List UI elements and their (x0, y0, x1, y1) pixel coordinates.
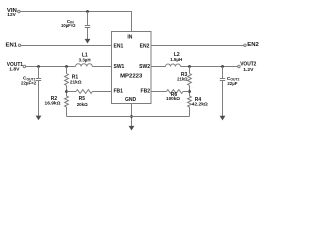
inductor L2 (166, 64, 181, 67)
wire EN2 to terminal (151, 45, 244, 47)
svg-text:1.2V: 1.2V (243, 67, 254, 73)
svg-text:100kΩ: 100kΩ (166, 96, 180, 101)
capacitor C_IN plates (85, 25, 90, 27)
wire SW2 to L2 (151, 66, 166, 68)
node C_OUT1 junction (37, 65, 40, 68)
wire R1 to node A (66, 86, 68, 97)
ground C_OUT2 (220, 116, 226, 121)
resistor R3 (188, 74, 192, 86)
resistor R6 (167, 90, 183, 94)
svg-text:EN1: EN1 (6, 43, 18, 49)
resistor R1 (65, 74, 69, 86)
node C_OUT2 junction (221, 65, 224, 68)
svg-text:MP2223: MP2223 (120, 73, 142, 79)
svg-text:EN1: EN1 (114, 44, 124, 50)
svg-text:1.5µH: 1.5µH (170, 57, 183, 62)
svg-text:22µF: 22µF (227, 81, 237, 86)
wire GND pin (131, 104, 133, 127)
ground IC GND (129, 126, 135, 131)
wire R5 to FB1 pin (92, 91, 111, 93)
ground C_IN (85, 39, 91, 44)
terminal EN2 (244, 44, 246, 46)
wire R2 bottom lead (66, 107, 68, 117)
svg-text:SW1: SW1 (114, 64, 125, 70)
wire VIN rail to IN corner (20, 12, 132, 32)
svg-text:10µF×2: 10µF×2 (61, 23, 76, 28)
node GND rail junction (130, 115, 133, 118)
wire bottom ground rail (67, 116, 190, 118)
svg-text:VOUT2: VOUT2 (240, 62, 256, 68)
terminal VOUT2 (238, 65, 240, 67)
wire C_OUT2 bottom lead (222, 81, 224, 116)
wire L2 to VOUT2 terminal (181, 66, 238, 68)
wire R1 top lead (66, 67, 68, 74)
op-amp U1 MP2223 box (112, 32, 152, 104)
node R1 top junction (65, 65, 68, 68)
wire R3 to node B (189, 86, 191, 97)
terminal VOUT1 (23, 65, 25, 67)
wire R3 top lead (189, 67, 191, 74)
svg-text:1.8V: 1.8V (9, 67, 20, 73)
wire EN1 to IC (21, 45, 112, 47)
ground C_OUT1 (36, 116, 42, 121)
wire C_IN bottom lead (87, 28, 89, 40)
resistor R2 (65, 96, 69, 107)
resistor R5 (76, 90, 92, 94)
svg-text:20kΩ: 20kΩ (77, 102, 88, 107)
svg-text:IN: IN (127, 34, 132, 40)
wire FB1 node to R5 (67, 91, 77, 93)
node C_IN junction (86, 10, 89, 13)
resistor R4 (188, 96, 192, 107)
svg-text:21kΩ: 21kΩ (70, 79, 82, 84)
wire L1 to SW1 (92, 66, 111, 68)
node B (FB2 divider tap) (188, 90, 191, 93)
wire C_OUT2 top lead (222, 67, 224, 79)
terminal VIN (18, 10, 20, 12)
svg-text:22µF×2: 22µF×2 (21, 80, 37, 85)
capacitor C_OUT1 plates (36, 78, 41, 80)
wire VOUT1 rail (26, 66, 76, 68)
svg-text:EN2: EN2 (247, 42, 259, 48)
svg-text:SW2: SW2 (139, 64, 150, 70)
svg-text:3.3µH: 3.3µH (79, 57, 92, 62)
wire R6 to node B (183, 91, 190, 93)
wire R4 bottom lead (189, 107, 191, 117)
svg-text:EN2: EN2 (140, 44, 150, 50)
svg-text:FB2: FB2 (141, 88, 151, 94)
svg-text:FB1: FB1 (114, 88, 124, 94)
capacitor C_OUT2 plates (220, 78, 225, 80)
svg-text:16.9kΩ: 16.9kΩ (45, 101, 61, 106)
svg-text:42.2kΩ: 42.2kΩ (192, 102, 208, 107)
wire C_IN top lead (87, 12, 89, 26)
svg-text:R5: R5 (79, 96, 86, 102)
terminal EN1 (18, 44, 20, 46)
inductor L1 (76, 64, 93, 67)
wire FB2 pin to R6 (151, 91, 167, 93)
svg-text:21kΩ: 21kΩ (177, 77, 188, 82)
node R3 top junction (188, 65, 191, 68)
svg-text:GND: GND (125, 97, 137, 103)
wire C_OUT1 top lead (38, 67, 40, 79)
node A (FB1 divider tap) (65, 90, 68, 93)
wire C_OUT1 bottom lead (38, 81, 40, 116)
svg-text:12V: 12V (7, 12, 16, 18)
